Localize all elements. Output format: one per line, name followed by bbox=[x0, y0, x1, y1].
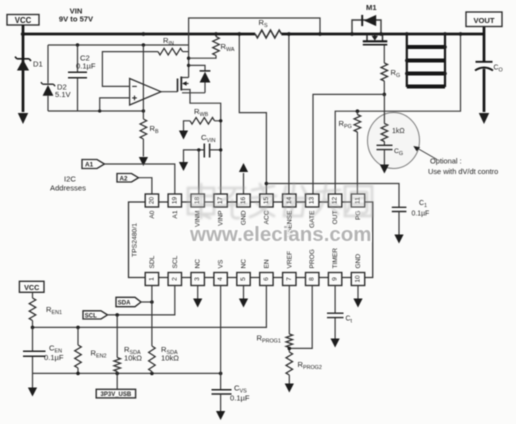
svg-text:SDL: SDL bbox=[149, 255, 156, 268]
wire SDA to pin1 bbox=[141, 301, 152, 303]
svg-text:9V to 57V: 9V to 57V bbox=[59, 15, 94, 24]
resistor 1k (dV/dt) bbox=[381, 94, 388, 145]
pin 20 A0 bbox=[145, 194, 158, 219]
watermark chinese glyphs bbox=[188, 184, 372, 218]
resistor RPG (power-good pull-up) bbox=[354, 109, 361, 194]
transistor Q2 (linear FET) bbox=[178, 77, 191, 93]
svg-text:19: 19 bbox=[171, 197, 178, 205]
resistor REN1 bbox=[29, 292, 36, 327]
VIN label bbox=[59, 7, 94, 24]
svg-text:Use with dV/dt contro: Use with dV/dt contro bbox=[428, 167, 498, 176]
resistor RG (gate) bbox=[381, 45, 388, 94]
svg-text:SCL: SCL bbox=[85, 314, 97, 320]
svg-text:20: 20 bbox=[148, 197, 155, 205]
VCC terminal box (enable) bbox=[19, 281, 44, 292]
wire A2 to pin20 bbox=[139, 178, 152, 194]
ground arrow pin3 bbox=[193, 286, 202, 308]
svg-text:8: 8 bbox=[309, 277, 316, 281]
pin 2 SCL bbox=[168, 255, 181, 285]
label I2C Addresses bbox=[50, 175, 86, 193]
wire 3.3V pull-up rail bbox=[33, 372, 221, 374]
pin 7 VREF bbox=[283, 251, 296, 286]
pin 14 VSENSE bbox=[283, 194, 296, 237]
pin 6 EN bbox=[260, 259, 273, 285]
svg-text:5.1V: 5.1V bbox=[55, 90, 72, 99]
svg-text:7: 7 bbox=[286, 277, 293, 281]
tag 3P3V_USB bbox=[96, 389, 135, 398]
svg-text:PROG: PROG bbox=[309, 249, 316, 268]
wire op-amp output to Q2 gate bbox=[161, 91, 178, 93]
resistor RPROG2 bbox=[285, 352, 294, 393]
svg-text:NC: NC bbox=[241, 259, 248, 269]
svg-text:0.1µF: 0.1µF bbox=[76, 62, 96, 71]
wire VCC stem bbox=[22, 25, 25, 34]
pin 15 ACC bbox=[260, 194, 273, 224]
pin 11 PG bbox=[351, 194, 364, 220]
svg-text:NC: NC bbox=[195, 259, 202, 269]
svg-text:10: 10 bbox=[355, 275, 362, 283]
svg-text:VS: VS bbox=[218, 259, 225, 268]
op IC U1 TPS2480/1 body bbox=[129, 202, 373, 278]
svg-text:1: 1 bbox=[148, 277, 155, 281]
wire Q2 source node bbox=[182, 93, 221, 194]
wire A1 to pin19 bbox=[105, 164, 175, 194]
wire pin1 SDL net + resistor RSDA bbox=[149, 286, 156, 374]
svg-text:0.1µF: 0.1µF bbox=[412, 211, 430, 218]
svg-text:2: 2 bbox=[171, 277, 178, 281]
zener D2 5.1V branch bbox=[41, 45, 55, 111]
svg-text:VREF: VREF bbox=[286, 251, 293, 269]
resistor REN2 bbox=[75, 327, 82, 373]
pin 4 VS bbox=[214, 259, 227, 285]
node drain-RWA bbox=[187, 57, 190, 60]
load (output ladder) bbox=[405, 32, 447, 87]
pin 9 TIMER bbox=[328, 248, 341, 286]
capacitor Ct (timer) bbox=[327, 286, 344, 348]
svg-text:0.1µF: 0.1µF bbox=[230, 394, 250, 403]
svg-text:4: 4 bbox=[217, 277, 224, 281]
pin 12 OUT bbox=[328, 194, 341, 224]
label D2 bbox=[55, 83, 72, 100]
wire SENSE pin14 riser bbox=[288, 34, 290, 194]
svg-text:VOUT: VOUT bbox=[473, 16, 494, 25]
resistor RWB bbox=[179, 118, 221, 140]
VOUT terminal box bbox=[466, 12, 502, 27]
svg-text:TPS2480/1: TPS2480/1 bbox=[132, 223, 139, 257]
diode D1 (input TVS) bbox=[15, 34, 31, 124]
wire loop bottom (op-amp + rail) bbox=[48, 110, 143, 112]
svg-text:SCL: SCL bbox=[172, 255, 179, 268]
svg-text:3P3V_USB: 3P3V_USB bbox=[101, 392, 132, 398]
tag SDA bbox=[116, 297, 141, 306]
wire pin4 VS net bbox=[220, 286, 222, 390]
node A to VIN tap bbox=[142, 43, 145, 46]
capacitor CG (dV/dt) bbox=[377, 145, 393, 173]
pin 17 VINP bbox=[214, 194, 227, 226]
svg-text:A1: A1 bbox=[85, 162, 94, 169]
transistor M1 (hot-swap pass FET) bbox=[352, 33, 381, 36]
node gate bbox=[383, 93, 387, 97]
svg-text:M1: M1 bbox=[366, 3, 377, 12]
svg-text:D1: D1 bbox=[33, 60, 43, 69]
svg-text:TIMER: TIMER bbox=[332, 248, 339, 269]
svg-text:VCC: VCC bbox=[15, 16, 32, 25]
wire ACC pin15 dog-leg from rail bbox=[239, 34, 266, 194]
diode D3 (clamp beside Q2) bbox=[189, 65, 211, 92]
wire main VIN rail bbox=[23, 33, 484, 36]
pin 16 GND bbox=[237, 194, 250, 225]
label CEN bbox=[44, 344, 64, 363]
capacitor C1 0.1uF bbox=[392, 207, 407, 243]
pin 18 VINM bbox=[191, 194, 204, 227]
svg-text:A1: A1 bbox=[172, 210, 179, 218]
svg-text:1kΩ: 1kΩ bbox=[392, 128, 405, 135]
optional dV/dt ellipse bbox=[368, 113, 420, 169]
label RSDA 10k bbox=[161, 345, 179, 363]
resistor RSDA (SCL pull-up) bbox=[114, 315, 121, 389]
ground arrow pin16 (up) bbox=[239, 163, 248, 194]
wire drain riser / gate feed loop bbox=[189, 18, 320, 78]
pin 10 GND bbox=[351, 254, 364, 286]
label C1 bbox=[412, 200, 430, 218]
svg-text:6: 6 bbox=[263, 277, 270, 281]
capacitor CEN 0.1uF bbox=[23, 327, 46, 396]
svg-text:13: 13 bbox=[309, 197, 316, 205]
pin 19 A1 bbox=[168, 194, 181, 219]
watermark www.elecians.com bbox=[189, 223, 372, 246]
capacitor C2 0.1uF bbox=[68, 45, 87, 111]
node drain-D3 bbox=[187, 64, 190, 67]
svg-text:3: 3 bbox=[194, 277, 201, 281]
pin 8 PROG bbox=[306, 249, 319, 285]
svg-text:GND: GND bbox=[355, 254, 362, 269]
capacitor CO (output) bbox=[475, 27, 493, 124]
wire SCL net to pin2 bbox=[108, 286, 175, 315]
svg-text:10kΩ: 10kΩ bbox=[124, 354, 142, 363]
svg-text:www.elecians.com: www.elecians.com bbox=[189, 223, 372, 246]
wire EN net bbox=[33, 286, 267, 328]
label RSDA 10k (2) bbox=[124, 345, 142, 363]
wire OUT net to VOUT rail bbox=[335, 34, 460, 194]
wire VINM pin18 riser bbox=[198, 150, 200, 194]
label C2 bbox=[76, 54, 96, 71]
resistor RS (sense) bbox=[255, 30, 281, 38]
wire ACC bypass to C1 bbox=[266, 184, 399, 208]
wire node-A top (zener/C2 rail) bbox=[48, 44, 189, 46]
op-amp U1 bbox=[130, 79, 161, 106]
pin 13 GATE bbox=[306, 194, 319, 228]
wire op-amp non-inverting input from zener rail bbox=[100, 98, 130, 111]
resistor RWA bbox=[189, 34, 220, 58]
svg-text:A0: A0 bbox=[149, 210, 156, 218]
svg-text:SDA: SDA bbox=[118, 301, 131, 307]
tag A2 bbox=[117, 174, 139, 183]
resistor RPROG1 bbox=[286, 286, 293, 353]
tag A1 bbox=[82, 160, 105, 169]
svg-text:VCC: VCC bbox=[24, 283, 39, 292]
resistor RB (op-amp bias) bbox=[139, 45, 148, 166]
resistor RIN bbox=[158, 48, 183, 55]
wire GATE pin13 bbox=[313, 94, 384, 194]
node ACC bypass tap bbox=[265, 182, 269, 186]
pin 1 SDL bbox=[145, 255, 158, 285]
svg-text:10kΩ: 10kΩ bbox=[161, 354, 179, 363]
VCC input terminal box bbox=[7, 15, 39, 26]
svg-text:Addresses: Addresses bbox=[50, 184, 86, 193]
label Optional note bbox=[413, 146, 498, 176]
svg-text:EN: EN bbox=[263, 259, 270, 268]
node VIN junction at VCC bbox=[21, 32, 25, 36]
capacitor CVS 0.1uF bbox=[212, 390, 232, 420]
wire pin8 PROG to divider bbox=[289, 286, 312, 349]
node A to C2 bbox=[76, 43, 79, 46]
wire op-amp inverting input from RIN node bbox=[102, 52, 158, 87]
ground arrow pin10 bbox=[353, 286, 362, 308]
svg-text:5: 5 bbox=[240, 277, 247, 281]
svg-text:0.1µF: 0.1µF bbox=[44, 353, 64, 362]
svg-text:I2C: I2C bbox=[64, 175, 76, 184]
ground arrow pin5 bbox=[239, 286, 248, 308]
tag SCL bbox=[83, 311, 108, 320]
pin 3 NC bbox=[191, 259, 204, 286]
pin 5 NC bbox=[237, 259, 250, 286]
svg-text:9: 9 bbox=[332, 277, 339, 281]
label CVS bbox=[230, 384, 250, 403]
svg-text:A2: A2 bbox=[120, 175, 128, 182]
capacitor CVIN bbox=[179, 144, 221, 172]
